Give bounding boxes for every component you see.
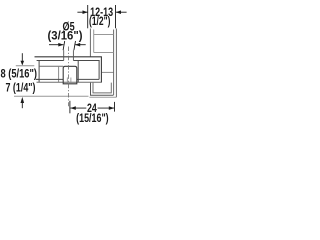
- resistor housing inner bottom H4: [36, 78, 99, 80]
- resistor housing outer right edge: [100, 57, 102, 82]
- wire dim d5 slant tick left: [63, 41, 65, 50]
- wire dim d5 slant tick right: [74, 41, 76, 50]
- svg-text:(15/16"): (15/16"): [76, 113, 109, 125]
- wire dim 12-13 extension right: [115, 5, 117, 28]
- resistor housing inner right edge: [98, 61, 100, 80]
- svg-text:7 (1/4"): 7 (1/4"): [6, 82, 36, 94]
- wire shelf bottom face line: [14, 95, 89, 97]
- node center line: [67, 47, 69, 107]
- svg-text:(3/16"): (3/16"): [48, 30, 83, 42]
- wire dim 8 extension line L1: [16, 65, 35, 67]
- resistor anchor box outer: [91, 83, 114, 96]
- resistor anchor box inner: [93, 83, 111, 93]
- wire dim 12-13 extension left: [87, 5, 89, 28]
- wire anchor arm line: [102, 71, 114, 73]
- wire panel hole top cap: [94, 34, 114, 36]
- wire housing divider: [58, 66, 60, 82]
- wire sleeve inner verticals: [67, 78, 71, 84]
- resistor housing inner top H2: [37, 60, 100, 62]
- wire dim d5 line right: [75, 44, 86, 46]
- wire dim 12-13 arrow right: [116, 10, 121, 14]
- node panel hole left edge D: [93, 30, 95, 53]
- resistor housing left edge: [38, 61, 40, 83]
- node panel right face B: [115, 29, 117, 98]
- node panel left face C: [89, 29, 91, 57]
- wire dim d5 line left: [49, 44, 63, 46]
- wire under-box line to panel face: [89, 96, 116, 98]
- wire panel hole ledge: [94, 52, 114, 54]
- wire dim 24 line right: [98, 107, 115, 109]
- wire dim 12-13 line left: [77, 11, 87, 13]
- svg-text:8 (5/16"): 8 (5/16"): [1, 69, 38, 81]
- wire dim 24 arrow left: [70, 106, 76, 110]
- wire dim d5 arrow right: [75, 43, 80, 47]
- wire dim 12-13 line right: [116, 11, 127, 13]
- resistor housing outer top H1: [35, 56, 102, 58]
- wire dim 24 tick left: [69, 101, 71, 114]
- resistor housing outer bottom H6: [37, 81, 102, 83]
- wire dim 24 line left: [70, 107, 86, 109]
- svg-text:(1/2"): (1/2"): [89, 16, 111, 28]
- wire dim 8 down arrow: [21, 53, 23, 61]
- capacitor sleeve rounded body: [63, 66, 77, 84]
- wire dim 7 up arrow: [21, 103, 23, 109]
- node panel hole right edge A: [113, 30, 115, 96]
- wire dim 7 extension stub L2: [36, 78, 39, 80]
- wire dim 24 arrow right: [109, 106, 115, 110]
- resistor chamber left wall: [77, 61, 79, 83]
- wire dim 12-13 arrow left: [83, 10, 88, 14]
- wire dim d5 arrow left: [58, 43, 63, 47]
- wire dowel hole extension left: [63, 50, 65, 60]
- wire housing mid line H3: [39, 65, 63, 67]
- wire dowel hole extension right: [72, 50, 74, 60]
- wire dim 24 tick right: [114, 102, 116, 112]
